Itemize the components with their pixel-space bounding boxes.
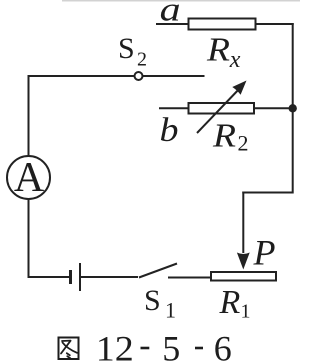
svg-text:1: 1 [241, 301, 251, 323]
wire R2 to right rail [254, 107, 293, 109]
svg-text:6: 6 [214, 329, 232, 364]
svg-text:S: S [118, 32, 135, 65]
wire left vertical upper [28, 75, 30, 157]
caption dash 2 [195, 347, 203, 350]
svg-text:12: 12 [96, 329, 134, 364]
wire top-left horizontal to S2 [28, 75, 135, 77]
svg-text:2: 2 [238, 131, 249, 156]
caption hanzi tu (drawn) [59, 338, 79, 360]
switch S1 lever [139, 264, 177, 278]
wire left vertical lower [28, 199, 30, 278]
wire battery to S1 [81, 276, 138, 278]
wire right vertical rail [292, 23, 294, 194]
resistor R1 box [211, 272, 276, 281]
switch S2 lever wire [143, 75, 205, 77]
resistor Rx box [189, 19, 256, 30]
variable resistor R2 arrowhead [232, 81, 246, 95]
ammeter A circle [7, 156, 50, 199]
svg-text:R: R [206, 32, 230, 69]
svg-text:R: R [212, 118, 236, 155]
svg-text:A: A [14, 155, 45, 201]
wire S1 to R1 [168, 277, 210, 279]
svg-text:b: b [160, 112, 179, 149]
svg-text:1: 1 [165, 298, 176, 323]
variable resistor R2 arrow shaft [197, 87, 242, 134]
battery negative plate (short) [69, 270, 72, 284]
wiper P vertical line [242, 192, 244, 254]
svg-text:5: 5 [162, 329, 180, 364]
junction node dot [289, 104, 297, 112]
wire terminal a to Rx [156, 23, 189, 25]
wiper P arrowhead [237, 253, 250, 270]
svg-text:R: R [219, 284, 241, 321]
svg-text:x: x [229, 47, 241, 73]
caption dash 1 [141, 347, 150, 350]
switch S2 contact circle [135, 72, 143, 80]
svg-text:a: a [160, 0, 181, 29]
svg-text:P: P [253, 233, 276, 273]
battery positive plate (long) [79, 263, 81, 291]
svg-text:S: S [144, 284, 161, 317]
wire bottom left to battery [28, 276, 70, 278]
resistor R2 box [189, 103, 255, 114]
wire wiper horizontal to right rail [242, 192, 292, 194]
wire terminal b to R2 [159, 107, 189, 109]
svg-text:2: 2 [137, 49, 147, 71]
wire Rx to right rail [256, 23, 294, 25]
scan artifact top edge line [62, 0, 300, 2]
